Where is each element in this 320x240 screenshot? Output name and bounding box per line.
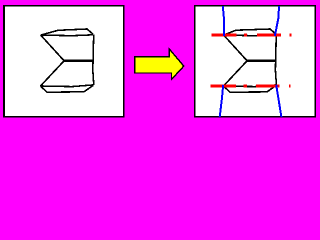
left solid: bottom face top edge [41, 85, 94, 87]
blue cut line top left [223, 6, 224, 36]
right solid: bottom face top edge [224, 85, 277, 87]
red bend line top: dot [244, 34, 247, 37]
right solid: bottom face front edge [224, 85, 277, 92]
red bend line bottom: dash segment 1 [211, 85, 236, 88]
red bend line top: end dot [290, 34, 292, 37]
left solid: bottom face front edge [41, 85, 94, 92]
blue cut line bottom left [220, 85, 224, 117]
yellow arrow [135, 49, 184, 79]
red bend line top: dash segment 2 [257, 34, 281, 37]
red bend line bottom: dash segment 2 [256, 85, 279, 88]
right solid: top face front edge [224, 34, 277, 37]
left solid: thick middle edge [64, 60, 93, 62]
right solid: notch lower edge [224, 61, 248, 86]
red bend line bottom: end dot [289, 85, 291, 88]
right solid: notch upper edge [224, 35, 247, 61]
left solid: right vertical edge [93, 35, 94, 85]
red bend line bottom: dot [244, 85, 248, 88]
right solid: top face back edge [224, 29, 277, 35]
left solid: notch upper edge [41, 35, 64, 61]
blue cut line top right [275, 6, 279, 36]
red bend line top: dash segment 1 [211, 34, 236, 37]
right solid: right vertical edge [275, 35, 276, 85]
left panel (white box, black border) [4, 6, 124, 117]
left solid: top face front edge [41, 34, 93, 37]
right solid: thick middle edge [247, 60, 276, 62]
blue cut line bottom right [276, 85, 281, 117]
left solid: notch lower edge [41, 61, 65, 86]
right panel (white box, black border) [195, 6, 315, 117]
magenta background [0, 0, 319, 123]
left solid: top face back edge [41, 29, 93, 35]
